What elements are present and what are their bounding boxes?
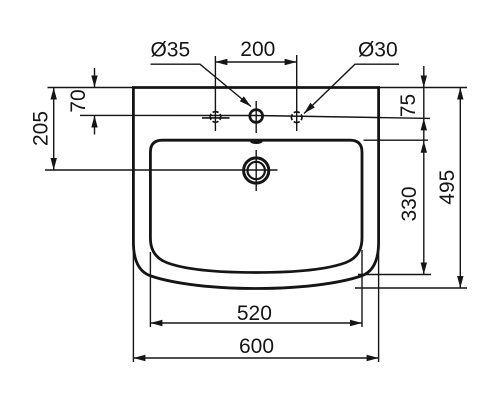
arrow 200 left — [215, 59, 227, 65]
dim 70 lines — [94, 68, 96, 88]
dim 205 line — [53, 88, 55, 171]
arrow 330 top — [421, 141, 427, 153]
arrow 600 left — [133, 355, 145, 361]
faucet hole left (dashed, optional) — [210, 112, 221, 123]
dim 495 line — [459, 88, 461, 289]
faucet hole right centerline vertical / extension to 200 dim — [296, 55, 298, 131]
dim 200 line — [215, 61, 296, 63]
svg-text:330: 330 — [398, 186, 421, 221]
extension line bottom left inner (520) — [149, 252, 151, 327]
washbasin outer outline — [133, 88, 378, 289]
svg-text:200: 200 — [240, 38, 275, 61]
extension line outer bottom right (495) — [355, 287, 467, 289]
dim 600 line — [133, 357, 378, 359]
svg-text:70: 70 — [67, 89, 90, 112]
svg-text:205: 205 — [30, 111, 53, 146]
dim 520 line — [150, 322, 362, 324]
svg-text:520: 520 — [237, 302, 272, 325]
arrow O30 leader — [304, 103, 315, 114]
arrow 520 right — [350, 320, 362, 326]
arrow 75 bottom — [421, 118, 427, 130]
arrow 205 bottom — [51, 158, 57, 170]
drain outer circle — [244, 158, 269, 183]
arrow 205 top — [51, 88, 57, 100]
arrow 520 left — [150, 320, 162, 326]
svg-text:75: 75 — [397, 94, 420, 117]
svg-text:495: 495 — [436, 170, 459, 205]
washbasin inner bowl outline — [150, 140, 362, 272]
faucet hole left centerline vertical / extension to 200 dim — [214, 56, 216, 131]
arrow O35 leader — [240, 96, 251, 106]
arrow 495 top — [457, 88, 463, 100]
arrow 70 top — [91, 76, 97, 88]
left hole short crosshair dash — [202, 117, 230, 119]
overflow notch — [250, 141, 263, 144]
leader O30 — [304, 64, 399, 113]
extension line top-left — [48, 87, 134, 89]
horizontal centerline through faucet holes — [80, 115, 430, 118]
extension line bottom right outer (600) — [378, 250, 380, 362]
extension line inner rim right — [364, 139, 429, 141]
svg-text:600: 600 — [239, 335, 274, 358]
leader O35 — [151, 64, 252, 106]
arrow 200 right — [285, 59, 297, 65]
extension line bottom right inner (520) — [361, 250, 363, 327]
svg-text:Ø35: Ø35 — [150, 39, 190, 62]
svg-text:Ø30: Ø30 — [358, 39, 398, 62]
faucet hole middle O35 — [250, 110, 263, 123]
arrow 495 bottom — [457, 276, 463, 288]
arrow 330 bottom — [421, 263, 427, 275]
drain inner circle — [248, 162, 265, 179]
dim 75 / 330 line — [423, 66, 425, 275]
arrow 70 bottom — [91, 116, 97, 128]
arrow 75 top — [421, 76, 427, 88]
faucet hole right O30 (dashed, optional) — [291, 112, 302, 123]
extension line bottom left outer (600) — [132, 252, 134, 362]
arrow 600 right — [367, 355, 379, 361]
horizontal centerline through drain — [45, 169, 278, 171]
extension line bowl bottom right (330) — [358, 274, 431, 276]
extension line top-right — [379, 87, 467, 89]
drain vertical centerline — [255, 150, 257, 191]
faucet hole middle vertical centerline — [255, 101, 257, 133]
